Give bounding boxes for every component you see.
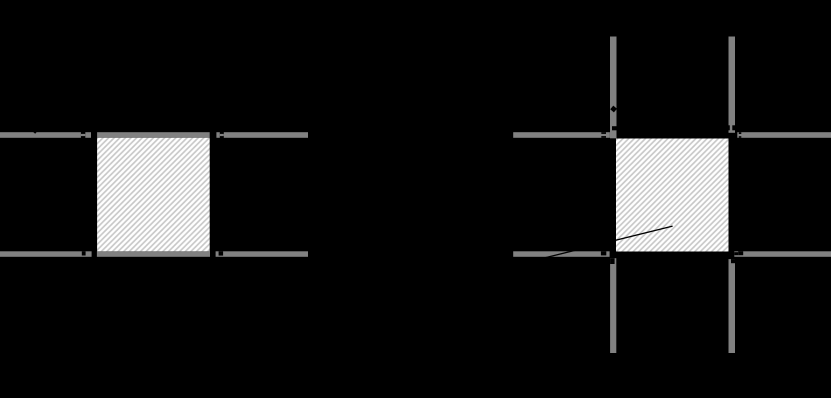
- annotation arrow tip on top wall: [33, 129, 38, 134]
- bottom wall segment A: [0, 251, 92, 256]
- lower-left wall notch: [601, 251, 606, 255]
- upper-right wall: [737, 132, 831, 138]
- upper-left wall neck cut top: [601, 132, 606, 134]
- upper-right wall neck cut top: [739, 132, 742, 134]
- left vertical wall top segment: [610, 37, 617, 139]
- left vertical wall bottom notch: [610, 258, 615, 264]
- leader line into obstacle: [541, 226, 673, 259]
- bottom wall notch right: [219, 251, 224, 255]
- lower-left wall: [513, 251, 609, 256]
- annotation diamond stub: [616, 108, 619, 109]
- top wall segment A: [0, 132, 81, 138]
- right vertical wall bottom segment: [729, 259, 736, 353]
- top wall segment D: [224, 132, 308, 138]
- obstacle hatched square fig1: [97, 138, 210, 252]
- obstacle top edge band: [97, 132, 210, 138]
- obstacle bottom edge band: [97, 251, 210, 256]
- upper-left wall neck cut bottom: [601, 136, 606, 138]
- upper-left wall: [513, 132, 610, 138]
- right vertical wall top neck cut left: [729, 125, 730, 130]
- lower-right wall: [734, 251, 831, 256]
- left vertical wall top notch: [612, 126, 617, 130]
- lower-right wall tip middle cut: [734, 252, 738, 255]
- right vertical wall top neck cut right: [732, 125, 735, 130]
- bottom wall notch left: [82, 251, 86, 255]
- annotation diamond on left vertical wall: [610, 106, 617, 113]
- bottom wall segment B: [216, 251, 308, 256]
- top wall neck bridge right: [220, 134, 224, 136]
- left vertical wall bottom segment: [610, 258, 616, 353]
- lower-right wall notch: [738, 251, 743, 255]
- upper-right wall neck cut bottom: [739, 136, 742, 138]
- top wall neck bridge: [81, 134, 85, 136]
- top wall stub C: [216, 132, 219, 138]
- obstacle hatched square fig2: [616, 139, 729, 252]
- right vertical wall top segment: [729, 37, 736, 133]
- top wall segment B: [85, 132, 91, 138]
- right vertical wall bottom notch: [731, 259, 735, 263]
